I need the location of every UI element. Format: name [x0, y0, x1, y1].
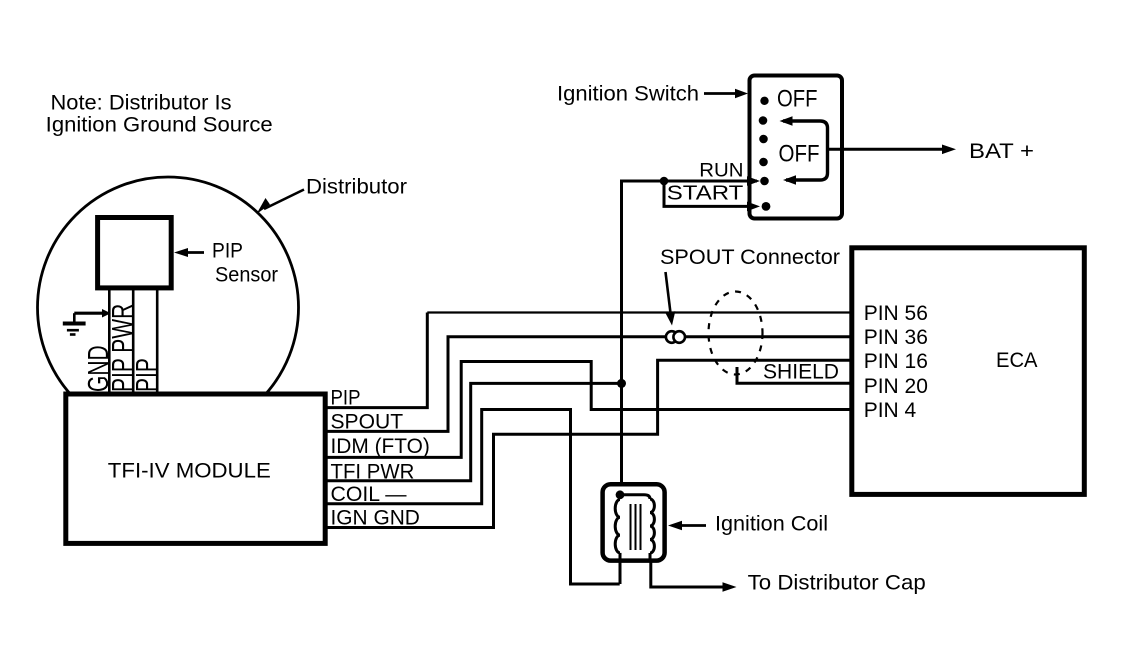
svg-text:Sensor: Sensor [215, 263, 278, 286]
ignition switch box [750, 76, 843, 219]
switch contact START [762, 202, 771, 211]
arrow RUN into switch [747, 176, 760, 186]
svg-text:Distributor: Distributor [306, 176, 407, 199]
arrow BAT+ [942, 145, 956, 155]
svg-text:OFF: OFF [779, 141, 820, 168]
arrow SPOUT connector [665, 272, 675, 326]
SPOUT connector shield ellipse [709, 292, 763, 375]
wire BAT+ [828, 148, 945, 151]
svg-text:PIN 20: PIN 20 [864, 375, 928, 398]
svg-text:Ignition Switch: Ignition Switch [557, 83, 699, 106]
wire ground lead [74, 309, 111, 318]
TFI-IV module box [66, 394, 325, 543]
ground symbol [63, 313, 86, 334]
switch contact position 4 [759, 158, 768, 167]
svg-text:SHIELD: SHIELD [763, 360, 839, 383]
PIP sensor box [98, 218, 172, 288]
arrow to distributor cap [723, 582, 737, 592]
svg-text:ECA: ECA [996, 349, 1038, 372]
wire TFI PWR (module to RUN vertical) [323, 383, 622, 480]
svg-text:TFI PWR: TFI PWR [331, 460, 415, 483]
node coil top junction [616, 490, 625, 499]
node junction RUN/START [660, 177, 669, 186]
svg-text:PIN 16: PIN 16 [864, 350, 928, 373]
wire START branch [664, 181, 750, 206]
svg-text:Note: Distributor Is: Note: Distributor Is [51, 91, 232, 114]
svg-text:OFF: OFF [777, 85, 818, 112]
svg-text:COIL —: COIL — [331, 483, 407, 506]
wire IGN GND (module to PIN 16) [323, 360, 852, 527]
SPOUT connector bullets [666, 331, 678, 343]
svg-text:START: START [667, 181, 744, 204]
svg-text:TFI-IV MODULE: TFI-IV MODULE [108, 460, 271, 483]
svg-text:PIP: PIP [131, 358, 163, 392]
svg-text:PIN 4: PIN 4 [864, 399, 917, 422]
wire coil left lead [619, 560, 622, 584]
arrow START into switch [747, 202, 760, 212]
node junction TFI PWR / RUN [617, 379, 626, 388]
note text [46, 91, 273, 136]
svg-text:PIN 56: PIN 56 [864, 302, 928, 325]
wire PIP leg [156, 288, 159, 394]
ignition coil box [603, 484, 665, 560]
wire SHIELD stub to PIN 20 [737, 367, 852, 383]
arrow bracket bottom [783, 175, 796, 185]
svg-text:PIP: PIP [212, 240, 243, 263]
ECA box [852, 248, 1085, 495]
wire RUN feed vertical [622, 181, 758, 495]
svg-text:To Distributor Cap: To Distributor Cap [748, 572, 926, 595]
wire PIP PWR leg [132, 288, 135, 394]
svg-text:SPOUT: SPOUT [331, 411, 404, 434]
wire GND leg [108, 288, 111, 394]
svg-text:SPOUT Connector: SPOUT Connector [660, 246, 840, 269]
arrow ignition switch [704, 89, 748, 99]
svg-text:Ignition Coil: Ignition Coil [715, 513, 828, 536]
arrow to distributor circle [257, 190, 305, 215]
svg-text:IDM (FTO): IDM (FTO) [331, 435, 430, 458]
switch contact position 3 [759, 135, 768, 144]
distributor circle [38, 177, 299, 438]
arrow to ignition coil [668, 521, 706, 531]
svg-text:IGN GND: IGN GND [331, 507, 420, 530]
svg-text:RUN: RUN [699, 160, 743, 182]
switch contact OFF position 1 [760, 97, 768, 105]
svg-text:BAT +: BAT + [969, 140, 1034, 163]
arrow to PIP sensor [174, 248, 204, 257]
svg-text:Ignition Ground Source: Ignition Ground Source [46, 114, 273, 137]
switch inner position bracket [783, 121, 828, 180]
coil core lines [631, 504, 641, 550]
wire IDM FTO (module to PIN 4) [323, 362, 852, 458]
coil inner winding [615, 495, 654, 561]
wire PIP (module to PIN 56) [323, 313, 427, 408]
wire SPOUT (module to PIN 36) [323, 337, 852, 432]
svg-text:PIN 36: PIN 36 [864, 326, 928, 349]
wire coil right lead to distributor cap [651, 560, 724, 587]
svg-text:PIP: PIP [331, 387, 361, 410]
switch contact RUN [760, 177, 769, 186]
arrow bracket top [780, 116, 793, 126]
wire COIL- (module to ignition coil) [323, 410, 620, 585]
switch contact position 2 [759, 116, 768, 125]
